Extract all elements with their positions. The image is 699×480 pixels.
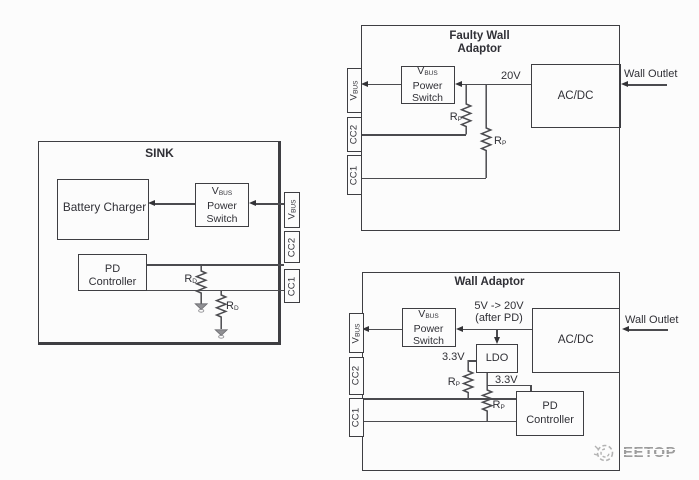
connector CC2 cell (faulty) xyxy=(347,117,362,152)
faulty wall adaptor enclosure box xyxy=(361,25,620,231)
arrowhead into LDO top xyxy=(494,337,500,344)
wall adaptor enclosure box xyxy=(362,272,621,471)
branch wire down to LDO xyxy=(496,329,498,338)
resistor RP2 (faulty) xyxy=(479,84,494,178)
ground for RD1 xyxy=(194,303,209,313)
label RP2 (faulty) xyxy=(494,135,506,147)
connector CC1 cell (adaptor) xyxy=(349,398,364,437)
3.3V wire drop into PD controller top xyxy=(530,385,532,391)
CC2 wire (sink) xyxy=(147,264,284,266)
PD controller block (adaptor) xyxy=(516,391,584,437)
label RD1 xyxy=(178,273,197,285)
resistor RD2 xyxy=(214,289,229,330)
arrowhead into Vbus cell (adaptor) xyxy=(362,326,369,332)
20V label xyxy=(501,70,521,82)
CC2 wire (adaptor) xyxy=(362,398,517,400)
wall outlet arrowhead (adaptor) xyxy=(622,326,629,332)
arrowhead into power switch (faulty) xyxy=(455,81,462,87)
wire: Vbus cell to power switch xyxy=(254,203,284,205)
resistor RP1 (faulty) xyxy=(459,84,474,135)
arrowhead into Vbus cell (faulty) xyxy=(361,81,368,87)
label RD2 xyxy=(226,300,239,312)
wall outlet label (adaptor) xyxy=(625,314,678,326)
wall outlet arrow wire (faulty) xyxy=(626,84,667,86)
label RP2 (adaptor) xyxy=(493,399,505,411)
wall adaptor title xyxy=(429,276,550,288)
20V wire: AC/DC to power switch xyxy=(459,84,531,86)
resistor RD1 xyxy=(194,263,209,305)
label RP1 (adaptor) xyxy=(446,376,460,388)
AC/DC block (faulty) xyxy=(531,64,621,128)
PD controller block (sink) xyxy=(78,254,147,291)
CC1 wire (sink) xyxy=(147,290,284,292)
battery charger block xyxy=(57,179,149,240)
connector Vbus cell (adaptor) xyxy=(349,313,364,353)
3.3V wire to PD controller xyxy=(487,385,532,387)
5V->20V label xyxy=(460,301,538,324)
resistor RP1 (adaptor) xyxy=(461,360,476,399)
connector CC2 cell (adaptor) xyxy=(349,357,364,395)
eetop text stripe 1 xyxy=(620,449,680,451)
arrowhead into power switch (sink) xyxy=(249,200,256,206)
SINK enclosure box xyxy=(38,141,281,345)
connector Vbus cell (faulty) xyxy=(347,68,362,113)
connector Vbus cell (sink) xyxy=(284,192,301,229)
wire LDO left to RP1 top xyxy=(469,360,477,362)
Vbus power switch block (sink) xyxy=(195,183,249,227)
CC1 wire (adaptor) xyxy=(362,421,517,423)
eetop swirl icon xyxy=(592,442,616,464)
AC/DC block (adaptor) xyxy=(532,308,621,374)
arrowhead into power switch (adaptor) xyxy=(456,326,463,332)
connector CC2 cell (sink) xyxy=(284,231,301,263)
ground for RD2 xyxy=(214,329,229,339)
connector CC1 cell (faulty) xyxy=(347,155,362,195)
wall outlet label (faulty) xyxy=(624,68,677,80)
eetop text stripe 2 xyxy=(620,454,680,456)
wire: power switch to Vbus cell (adaptor) xyxy=(366,329,402,331)
Vbus power switch block (adaptor) xyxy=(402,308,456,347)
LDO block xyxy=(476,344,518,373)
eetop text xyxy=(623,444,676,461)
3.3V label left of LDO xyxy=(442,351,465,363)
CC2 wire (faulty) xyxy=(361,134,466,136)
wall outlet arrow wire (adaptor) xyxy=(627,329,668,331)
Vbus power switch block (faulty) xyxy=(401,66,455,104)
faulty wall adaptor title xyxy=(419,30,540,57)
main wire: AC/DC to power switch (adaptor) xyxy=(460,329,532,331)
label RP1 (faulty) xyxy=(443,111,462,123)
wire: power switch to Vbus cell (faulty) xyxy=(366,84,401,86)
connector CC1 cell (sink) xyxy=(284,269,301,303)
wall outlet arrowhead (faulty) xyxy=(621,81,628,87)
wire: power switch to battery charger xyxy=(153,203,195,205)
SINK title xyxy=(38,146,281,160)
CC1 wire (faulty) xyxy=(361,178,486,180)
3.3V label below LDO xyxy=(493,374,520,386)
resistor RP2 (adaptor) with lead from LDO bottom xyxy=(480,373,495,422)
arrowhead into battery charger xyxy=(148,200,155,206)
